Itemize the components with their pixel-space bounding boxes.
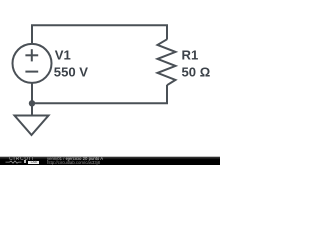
svg-text:50 Ω: 50 Ω (182, 64, 211, 79)
voltage source V1 (13, 44, 52, 83)
wire: V1- to node A (31, 83, 33, 104)
watermark text line 1 (47, 157, 103, 161)
CircuitLab logo: CIRCUIT (9, 157, 42, 161)
CircuitLab logo: tick (24, 160, 26, 163)
svg-text:550 V: 550 V (54, 64, 88, 79)
watermark text line 2 (47, 161, 100, 165)
wire: node A to ground (31, 103, 33, 115)
svg-text:R1: R1 (182, 47, 199, 62)
CircuitLab logo: wave (5, 160, 31, 166)
node A junction dot (29, 100, 35, 106)
ground (15, 116, 49, 136)
wire: R1 bottom to node A (32, 85, 167, 103)
CircuitLab logo: LAB box (28, 161, 39, 164)
wire: V1+ to R1 top (32, 25, 167, 44)
svg-text:V1: V1 (55, 47, 71, 62)
watermark bar (0, 156, 220, 165)
resistor R1 (158, 39, 176, 85)
